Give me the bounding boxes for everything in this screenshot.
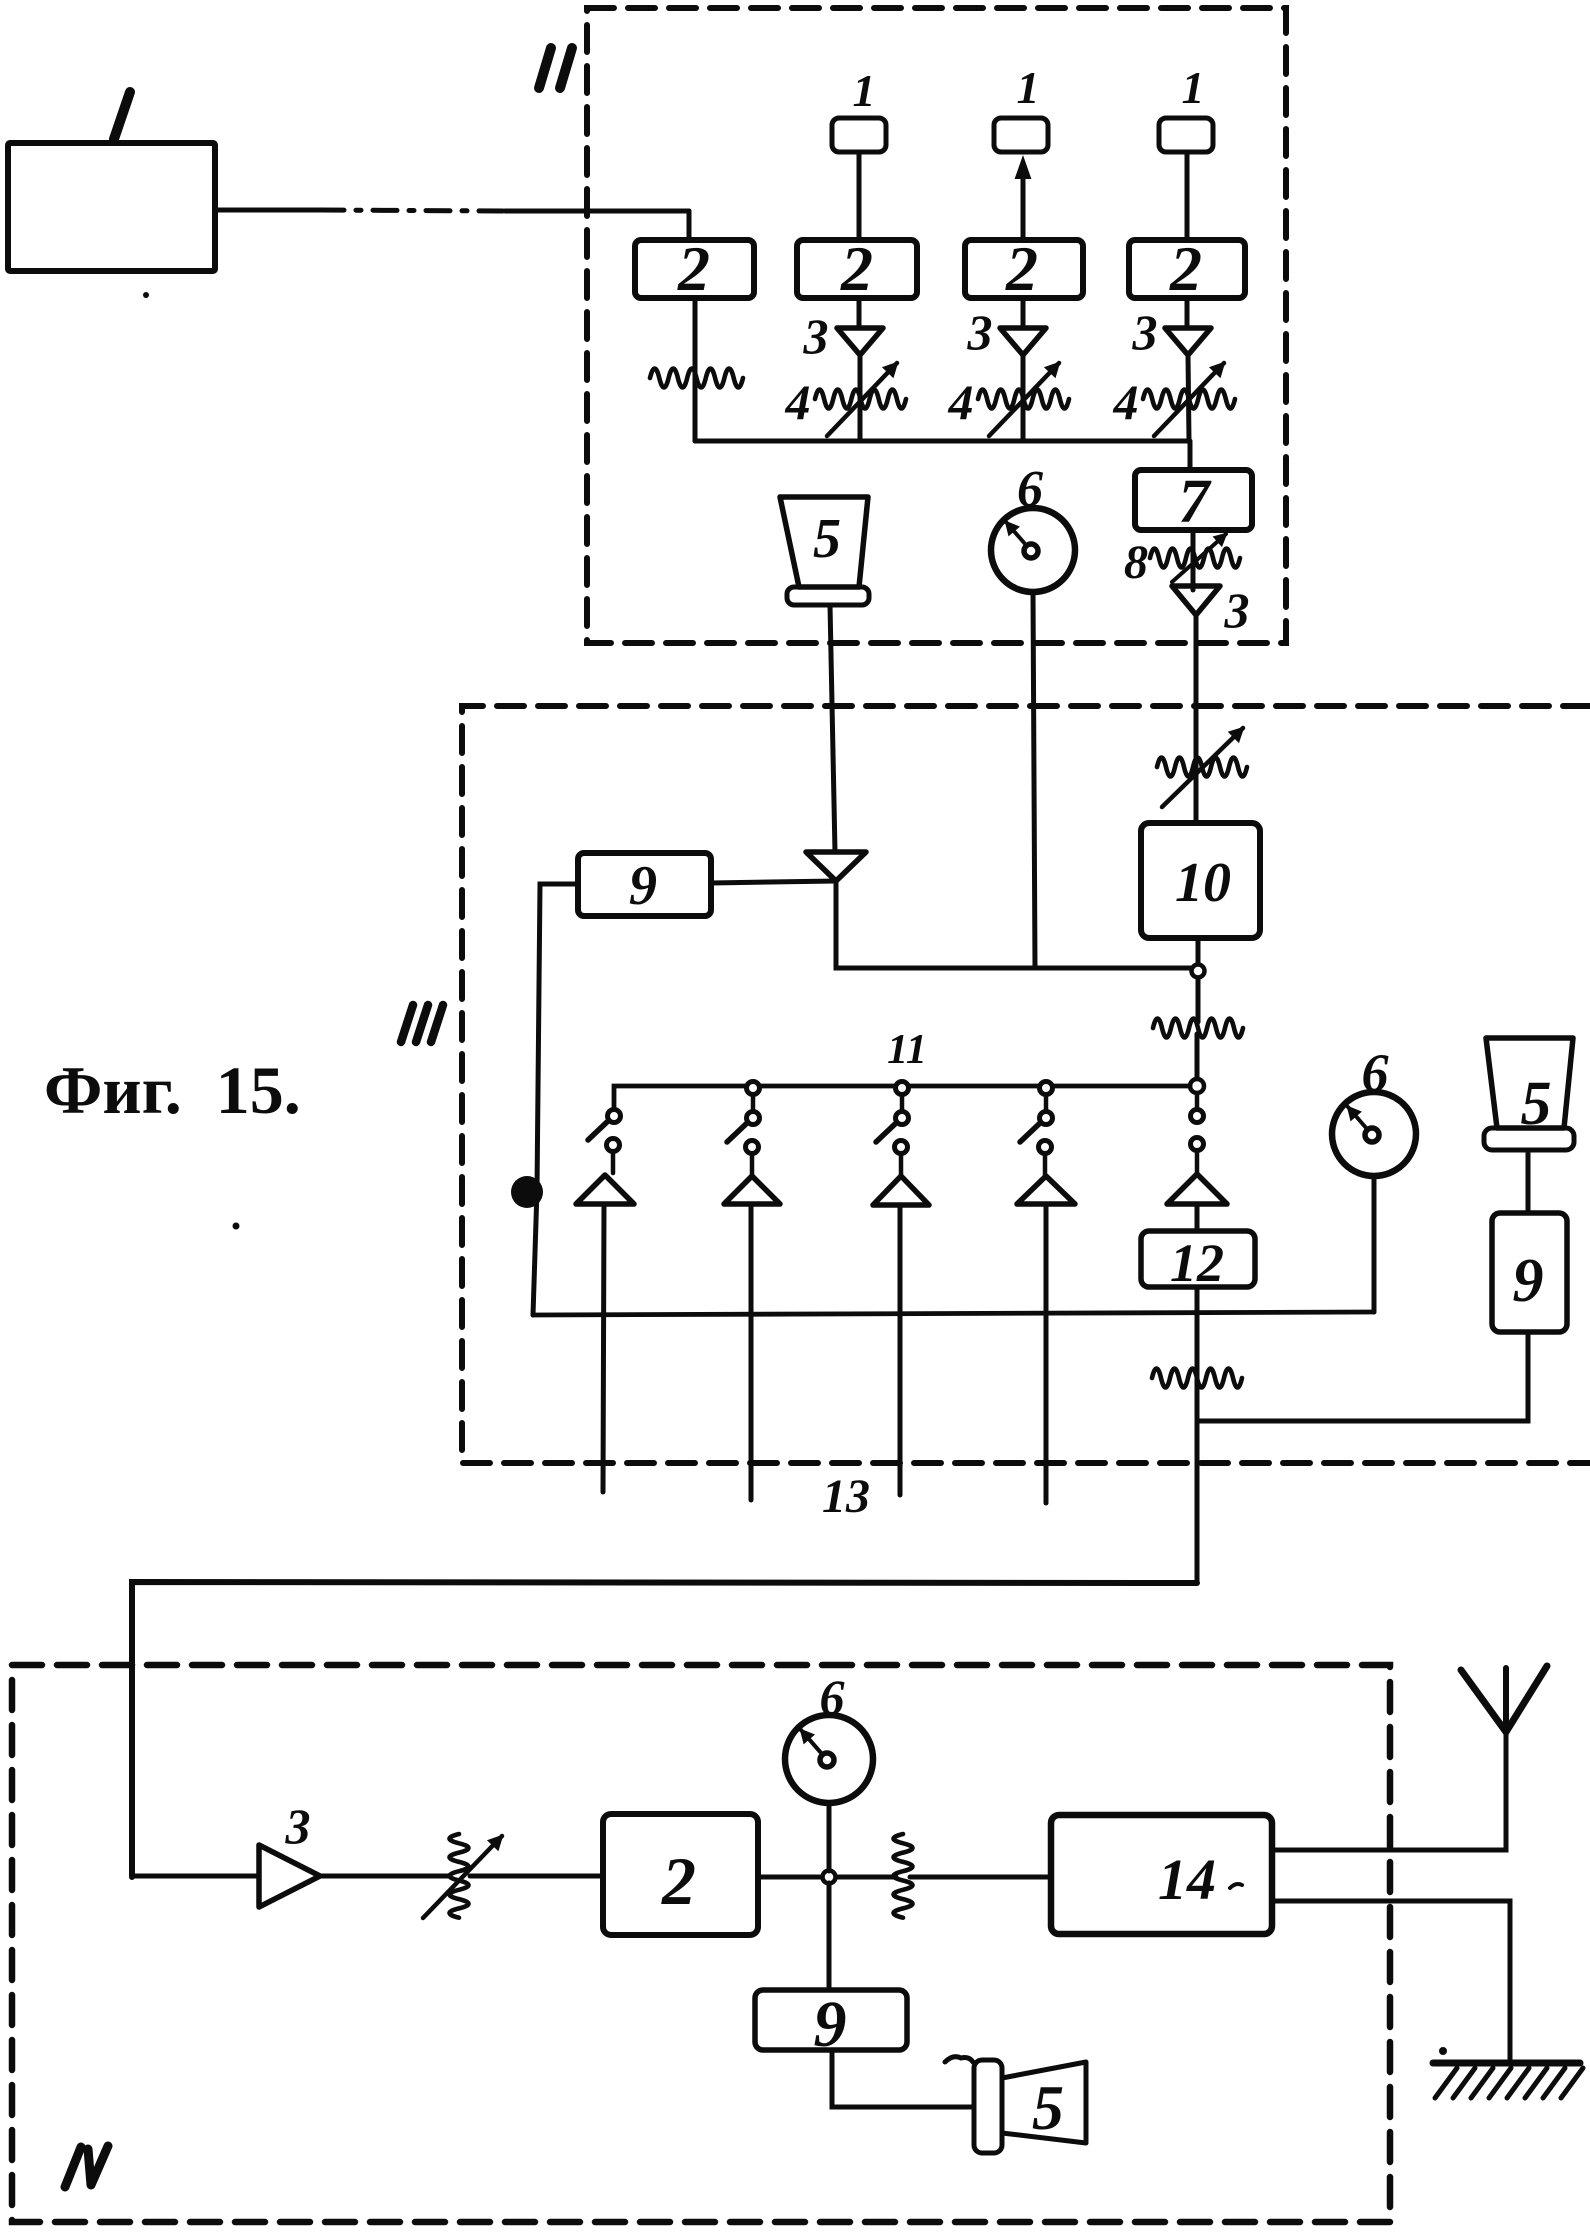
wire into amplifier 3 (IV) [132, 1874, 259, 1879]
wire speaker 5 down [830, 605, 835, 852]
ground [1433, 2060, 1580, 2067]
wire meter to node (IV) [827, 1803, 832, 1871]
speaker 5 (III) [1486, 1038, 1573, 1128]
amplifier (switch 1) [576, 1175, 634, 1204]
wire node to resistor [1196, 978, 1201, 1022]
block 9 (III left) [578, 853, 711, 916]
block 9 (III right) [1492, 1213, 1567, 1332]
variable resistor 4 (col B) [978, 390, 1069, 409]
svg-text:3: 3 [967, 304, 993, 360]
amplifier 3 (below 8) [1172, 586, 1220, 615]
variable resistor 4 (col C) [1143, 390, 1235, 409]
wire block9 to speaker (IV) [832, 2050, 974, 2107]
svg-text:3: 3 [1224, 582, 1250, 638]
antenna [1503, 1668, 1509, 1732]
ink speck below box I [143, 292, 149, 298]
meter 6 (II) [991, 508, 1075, 592]
svg-text:4: 4 [785, 374, 811, 430]
wire resistor to bus node [1195, 1034, 1200, 1078]
wire 3-bus (col B) [1021, 355, 1026, 441]
wire 12 down [1195, 1287, 1200, 1583]
svg-text:9: 9 [629, 855, 657, 917]
dot near ground [1439, 2047, 1447, 2055]
switch 2 [747, 1082, 760, 1095]
svg-text:6: 6 [1017, 461, 1043, 518]
long wire III to IV [132, 1582, 1197, 1877]
wire meter 6 down [1033, 592, 1035, 968]
variable resistor (IV) [450, 1834, 469, 1918]
meter 6 (IV) [785, 1715, 873, 1803]
wire block9 left down [533, 884, 578, 1315]
svg-text:13: 13 [822, 1470, 870, 1523]
svg-text:14: 14 [1158, 1847, 1216, 1912]
switch 3 [896, 1082, 909, 1095]
wire node to resistor (IV) [836, 1875, 896, 1880]
wire 2-3 (col A) [857, 298, 862, 328]
amplifier 3 (col B) [1000, 328, 1046, 355]
svg-text:5: 5 [1032, 2072, 1064, 2143]
svg-text:6: 6 [820, 1669, 845, 1725]
resistor below 12 [1152, 1369, 1242, 1388]
wire 14 to ground [1272, 1901, 1510, 2063]
wire 3-bus (col A) [858, 355, 863, 441]
ink blob [511, 1176, 543, 1208]
block 1 (col B) [994, 118, 1048, 152]
wire into first block 2 [687, 211, 692, 240]
svg-text:4: 4 [948, 374, 974, 430]
block 12 [1141, 1231, 1255, 1287]
resistor (first branch) [650, 369, 743, 388]
svg-text:Фиг. 15.: Фиг. 15. [44, 1052, 301, 1128]
svg-text:1: 1 [853, 65, 876, 116]
amplifier 3 (col A) [837, 328, 883, 355]
ink speck left margin [233, 1223, 240, 1230]
meter 6 (III) [1332, 1092, 1416, 1176]
summing bus in II [695, 439, 1189, 444]
block 14 [1051, 1815, 1272, 1934]
arrow of resistor 4 (col B) [989, 363, 1059, 436]
block 10 [1141, 823, 1260, 938]
label IV [65, 2147, 81, 2187]
wire into block 10 [1194, 770, 1199, 823]
svg-text:2: 2 [1169, 233, 1202, 304]
amplifier (col 12) [1167, 1174, 1227, 1204]
amplifier (switch 4) [1017, 1176, 1075, 1204]
svg-text:3: 3 [1132, 304, 1158, 360]
speaker 5 (II) [780, 497, 868, 587]
variable resistor 4 (col A) [815, 390, 906, 409]
wire below first block 2 [693, 298, 698, 441]
wire resistor to block 2 (IV) [470, 1874, 603, 1879]
svg-text:2: 2 [840, 233, 873, 304]
amplifier 3 (col C) [1165, 328, 1211, 355]
wire bus to block 7 [1188, 441, 1193, 470]
ink mark near speaker (IV) [945, 2057, 973, 2062]
switch 4 [1040, 1082, 1053, 1095]
amplifier (switch 2) [724, 1176, 780, 1204]
block 1 (col A) [832, 118, 886, 152]
block 9 (IV) [755, 1990, 907, 2050]
wire switch3 down [898, 1205, 903, 1495]
label III [401, 1005, 413, 1042]
wire 3 to resistor (IV) [320, 1874, 448, 1879]
dashed enclosure IV [12, 1665, 1390, 2222]
svg-text:11: 11 [887, 1027, 927, 1073]
svg-text:4: 4 [1113, 374, 1139, 430]
variable resistor 8 [1150, 549, 1240, 568]
switch 1 [608, 1110, 621, 1123]
svg-text:7: 7 [1179, 468, 1213, 536]
label II [539, 48, 551, 88]
arrow of resistor 8 [1172, 534, 1226, 582]
svg-text:1: 1 [1017, 62, 1040, 113]
mixer triangle (inverted) [806, 852, 866, 881]
dashed enclosure II [587, 8, 1286, 643]
amplifier (switch 3) [873, 1176, 929, 1205]
label I [114, 92, 130, 139]
svg-text:1: 1 [1182, 62, 1205, 113]
dashed enclosure III [462, 706, 1590, 1463]
wire 2-3 (col C) [1185, 298, 1190, 328]
wire mixer down and right to node [836, 881, 1198, 968]
svg-text:2: 2 [1005, 233, 1038, 304]
wire 1-2 (col A) [857, 152, 862, 240]
wire speaker to block 9 (III right) [1526, 1150, 1531, 1213]
svg-text:2: 2 [677, 233, 710, 304]
svg-text:8: 8 [1124, 536, 1148, 589]
block 2 (col B) [965, 240, 1083, 298]
selector bus 11 [614, 1086, 1190, 1108]
wire block2 to node (IV) [758, 1875, 822, 1880]
block 2 (col C) [1129, 240, 1245, 298]
svg-text:10: 10 [1175, 852, 1231, 914]
arrow of resistor above 10 [1162, 728, 1243, 807]
svg-text:3: 3 [803, 308, 829, 364]
svg-text:6: 6 [1362, 1043, 1389, 1103]
block 2 (first, II) [635, 240, 754, 298]
arrow of resistor 4 (col C) [1154, 363, 1224, 436]
dash-dot wire from I to II [215, 208, 320, 213]
wire 3 down to III [1194, 615, 1199, 770]
wire 2-3 (col B) [1021, 298, 1026, 328]
wire block9 (III right) down-left [1197, 1332, 1528, 1421]
amplifier 3 (IV) [259, 1845, 320, 1907]
resistor below node [1153, 1019, 1243, 1038]
closed contact pair (col 12) [1195, 1093, 1200, 1109]
wire 1-2 with up arrow (col B) [1021, 172, 1026, 240]
wire meter 6 (III) down [1372, 1176, 1377, 1312]
speaker 5 (IV) [974, 2060, 1002, 2153]
wire 3-bus (col C) [1188, 355, 1189, 441]
block 2 (col A) [797, 240, 917, 298]
block 1 (col C) [1159, 118, 1213, 152]
svg-text:9: 9 [1513, 1247, 1544, 1315]
wire 7-8 [1191, 530, 1196, 590]
arrow of resistor (IV) [423, 1836, 502, 1918]
wire node down to block 9 (IV) [827, 1883, 832, 1990]
wire into block 12 [1195, 1204, 1200, 1231]
wire resistor to block 14 [910, 1875, 1051, 1880]
wire 14 to antenna [1272, 1732, 1506, 1850]
wire switch4 down [1044, 1204, 1049, 1503]
variable resistor above 10 [1157, 758, 1247, 777]
wire 1-2 (col C) [1185, 152, 1190, 240]
svg-text:3: 3 [285, 1798, 311, 1854]
wire switch2 down [749, 1204, 754, 1500]
block 2 (IV) [603, 1814, 758, 1935]
wire block9 right to mixer [711, 881, 836, 883]
wire switch1 down [603, 1204, 604, 1492]
node below 10 [1192, 965, 1205, 978]
svg-text:2: 2 [661, 1843, 696, 1919]
box I (source) [8, 143, 215, 271]
svg-text:12: 12 [1170, 1233, 1224, 1293]
block 7 [1135, 470, 1252, 530]
node (IV) [823, 1871, 836, 1884]
svg-text:5: 5 [813, 508, 841, 570]
wire 10 to node [1196, 938, 1201, 964]
return bus in III [533, 1312, 1374, 1315]
svg-text:5: 5 [1521, 1070, 1552, 1138]
node on selector bus [1190, 1079, 1204, 1093]
arrow of resistor 4 (col A) [827, 363, 897, 436]
resistor mid (IV) [894, 1834, 913, 1918]
